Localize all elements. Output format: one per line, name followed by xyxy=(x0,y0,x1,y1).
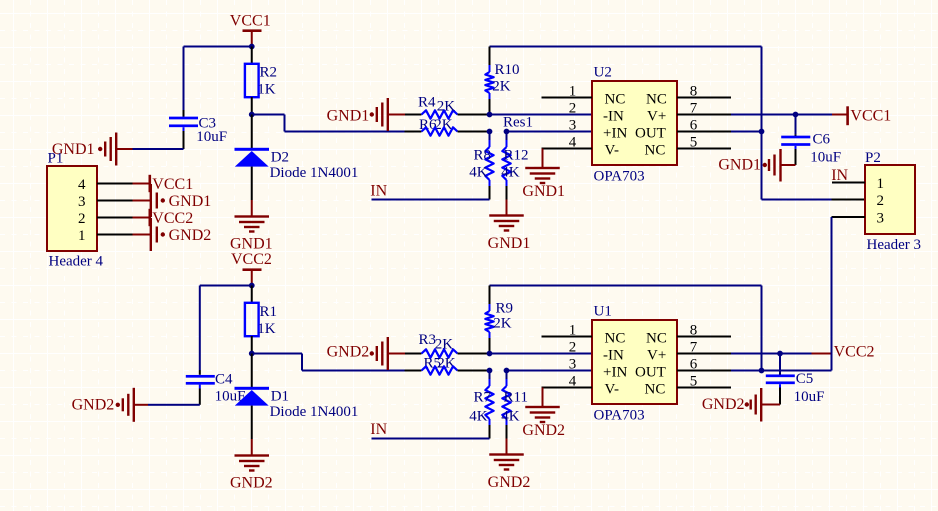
svg-text:R12: R12 xyxy=(504,147,529,163)
svg-text:8: 8 xyxy=(690,323,698,339)
svg-text:D1: D1 xyxy=(271,389,289,405)
svg-text:NC: NC xyxy=(605,331,626,347)
svg-text:VCC2: VCC2 xyxy=(231,251,272,268)
svg-text:V+: V+ xyxy=(647,109,666,125)
svg-text:V+: V+ xyxy=(647,348,666,364)
svg-text:NC: NC xyxy=(605,92,626,108)
svg-text:R7: R7 xyxy=(474,389,492,405)
svg-text:OPA703: OPA703 xyxy=(594,168,645,184)
svg-text:-IN: -IN xyxy=(603,348,624,364)
svg-text:GND2: GND2 xyxy=(327,344,370,361)
svg-text:10uF: 10uF xyxy=(196,129,227,145)
svg-text:8: 8 xyxy=(690,84,698,100)
svg-text:1K: 1K xyxy=(257,82,276,98)
svg-text:3: 3 xyxy=(569,357,577,373)
svg-text:GND2: GND2 xyxy=(230,474,273,491)
svg-text:2K: 2K xyxy=(493,315,512,331)
svg-text:10uF: 10uF xyxy=(794,389,825,405)
svg-text:VCC2: VCC2 xyxy=(834,343,875,360)
svg-text:7: 7 xyxy=(690,340,698,356)
svg-text:U2: U2 xyxy=(594,64,612,80)
svg-text:C5: C5 xyxy=(796,371,814,387)
svg-text:VCC1: VCC1 xyxy=(850,108,891,125)
svg-text:10uF: 10uF xyxy=(810,150,841,166)
svg-text:R8: R8 xyxy=(474,147,492,163)
svg-text:OUT: OUT xyxy=(635,365,666,381)
svg-text:7: 7 xyxy=(690,101,698,117)
svg-text:5: 5 xyxy=(690,135,698,151)
svg-text:VCC1: VCC1 xyxy=(230,13,271,30)
svg-text:GND2: GND2 xyxy=(169,227,212,244)
svg-text:NC: NC xyxy=(646,331,667,347)
svg-text:IN: IN xyxy=(831,167,848,184)
svg-text:4K: 4K xyxy=(501,165,520,181)
svg-text:NC: NC xyxy=(645,143,666,159)
svg-text:4K: 4K xyxy=(469,408,488,424)
svg-text:R9: R9 xyxy=(496,300,514,316)
svg-text:GND1: GND1 xyxy=(169,193,212,210)
svg-text:1: 1 xyxy=(877,176,885,192)
svg-text:+IN: +IN xyxy=(603,365,627,381)
svg-text:4K: 4K xyxy=(501,408,520,424)
svg-text:GND2: GND2 xyxy=(702,396,745,413)
svg-text:R4: R4 xyxy=(418,95,436,111)
svg-text:1: 1 xyxy=(78,228,86,244)
svg-text:GND2: GND2 xyxy=(72,396,115,413)
svg-text:P1: P1 xyxy=(48,151,64,167)
svg-text:5: 5 xyxy=(690,374,698,390)
svg-text:NC: NC xyxy=(646,92,667,108)
svg-text:R11: R11 xyxy=(504,389,528,405)
svg-text:R3: R3 xyxy=(419,332,437,348)
svg-text:3: 3 xyxy=(569,118,577,134)
svg-text:2: 2 xyxy=(569,340,577,356)
svg-text:IN: IN xyxy=(370,421,387,438)
svg-text:IN: IN xyxy=(370,183,387,200)
svg-text:Diode 1N4001: Diode 1N4001 xyxy=(270,165,359,181)
svg-text:3: 3 xyxy=(78,194,86,210)
svg-text:4K: 4K xyxy=(469,165,488,181)
svg-text:NC: NC xyxy=(645,382,666,398)
svg-text:Res1: Res1 xyxy=(503,114,533,130)
svg-text:GND1: GND1 xyxy=(718,156,761,173)
svg-text:4: 4 xyxy=(569,374,577,390)
svg-text:R10: R10 xyxy=(495,62,520,78)
svg-text:VCC1: VCC1 xyxy=(152,176,193,193)
svg-text:4: 4 xyxy=(78,177,86,193)
svg-text:GND2: GND2 xyxy=(488,474,531,491)
svg-text:GND1: GND1 xyxy=(327,108,370,125)
svg-text:GND1: GND1 xyxy=(230,235,273,252)
svg-text:U1: U1 xyxy=(594,303,612,319)
svg-text:4: 4 xyxy=(569,135,577,151)
svg-text:D2: D2 xyxy=(271,150,289,166)
svg-text:1: 1 xyxy=(569,323,577,339)
svg-text:6: 6 xyxy=(690,118,698,134)
svg-text:VCC2: VCC2 xyxy=(152,210,193,227)
svg-text:2: 2 xyxy=(877,193,885,209)
svg-text:2K: 2K xyxy=(437,99,456,115)
svg-text:6: 6 xyxy=(690,357,698,373)
svg-text:Diode 1N4001: Diode 1N4001 xyxy=(270,404,359,420)
svg-text:3: 3 xyxy=(877,210,885,226)
svg-text:-IN: -IN xyxy=(603,109,624,125)
svg-text:GND2: GND2 xyxy=(522,422,565,439)
svg-text:2: 2 xyxy=(78,211,86,227)
svg-text:OPA703: OPA703 xyxy=(594,407,645,423)
svg-text:P2: P2 xyxy=(865,150,881,166)
svg-text:2K: 2K xyxy=(492,79,511,95)
svg-text:GND1: GND1 xyxy=(488,235,531,252)
svg-text:Header 4: Header 4 xyxy=(49,253,104,269)
svg-text:1: 1 xyxy=(569,84,577,100)
svg-text:R1: R1 xyxy=(260,304,278,320)
svg-text:C6: C6 xyxy=(813,132,831,148)
svg-text:2K: 2K xyxy=(435,337,454,353)
svg-text:OUT: OUT xyxy=(635,126,666,142)
svg-text:C4: C4 xyxy=(215,371,233,387)
svg-text:Header 3: Header 3 xyxy=(867,237,922,253)
svg-text:2: 2 xyxy=(569,101,577,117)
svg-text:1K: 1K xyxy=(257,321,276,337)
svg-text:+IN: +IN xyxy=(603,126,627,142)
svg-text:R2: R2 xyxy=(260,65,278,81)
svg-text:V-: V- xyxy=(605,382,619,398)
svg-text:V-: V- xyxy=(605,143,619,159)
svg-text:GND1: GND1 xyxy=(522,183,565,200)
